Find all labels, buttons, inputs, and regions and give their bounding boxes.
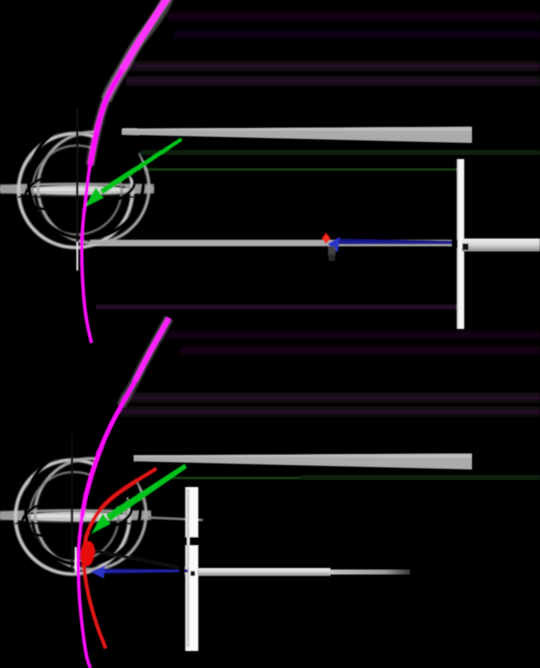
gray slab upper (perspective wedge) [122, 127, 472, 143]
black overlay circle [29, 124, 144, 239]
blue arrow shaft [104, 569, 188, 574]
black overlay circle [26, 450, 141, 565]
purple line t3 [126, 61, 540, 71]
equator wing left [0, 185, 27, 194]
purple line b4 [120, 407, 540, 417]
dark green line [172, 477, 540, 480]
junction black marks [452, 240, 458, 249]
sphere equator bar [23, 512, 127, 521]
faint purple line b1 [158, 331, 540, 339]
black tick on bar [177, 537, 203, 546]
equator tail right [148, 518, 203, 521]
equator wing left [0, 511, 27, 520]
red recoil track lower [84, 558, 106, 649]
detector side bar (horizontal) [199, 568, 331, 576]
black overlay ellipse [23, 161, 138, 218]
green momentum arrow shaft [100, 138, 182, 195]
equator wing right [122, 511, 151, 521]
black wedge (true direction) [95, 550, 188, 571]
equator wing right [125, 184, 154, 194]
sphere equator ellipse [0, 511, 150, 521]
white axis stub below sphere [75, 547, 77, 572]
green momentum arrow head [92, 514, 111, 534]
black horizontal crosshair [15, 523, 131, 525]
blue arrow shaft [338, 239, 457, 245]
blue arrow head [91, 566, 106, 579]
gray sphere circle B [38, 132, 149, 243]
gray slab upper (perspective wedge) [134, 454, 472, 470]
gray sphere circle A [19, 134, 133, 248]
junction black marks [179, 567, 185, 576]
faint dark green line [140, 150, 540, 155]
blue arrow head [328, 237, 340, 253]
sphere equator bar [26, 185, 130, 194]
purple line b3 [120, 393, 540, 403]
faint purple line t2 [174, 31, 540, 39]
black vertical crosshair [71, 434, 73, 573]
magenta track [106, 0, 168, 100]
detector bar (vertical, right) [457, 159, 464, 329]
sphere equator ellipse [0, 184, 153, 194]
black patch top-right [82, 437, 143, 514]
inner gray circle [30, 472, 119, 561]
green momentum arrow shaft [106, 464, 187, 522]
dark green line [131, 168, 461, 171]
gray axis line to detector [90, 240, 457, 247]
black patch top-right [85, 110, 146, 187]
green momentum arrow head [85, 188, 104, 208]
purple line t4 [126, 76, 540, 86]
faint purple line t1 [168, 13, 540, 21]
gray sphere circle B [35, 459, 146, 570]
faint purple line b2 [180, 347, 540, 355]
red hit marker [322, 233, 331, 244]
black arc over slab tip [106, 437, 124, 475]
white axis stub below sphere [76, 242, 78, 271]
magenta track [121, 318, 169, 406]
black vertical crosshair [76, 107, 78, 247]
red vertex dot [79, 540, 97, 567]
red recoil track upper [85, 469, 157, 548]
black arc over slab tip [109, 111, 127, 149]
inner gray circle [33, 146, 122, 235]
black horizontal crosshair [18, 196, 134, 198]
detector bar (vertical) [185, 487, 198, 651]
detector side bar (right horizontal) [462, 239, 540, 252]
gray stub below arrow tip [328, 247, 336, 256]
gray sphere circle A [16, 460, 130, 574]
faint purple line t5 [96, 305, 456, 310]
black overlay ellipse [20, 487, 135, 544]
